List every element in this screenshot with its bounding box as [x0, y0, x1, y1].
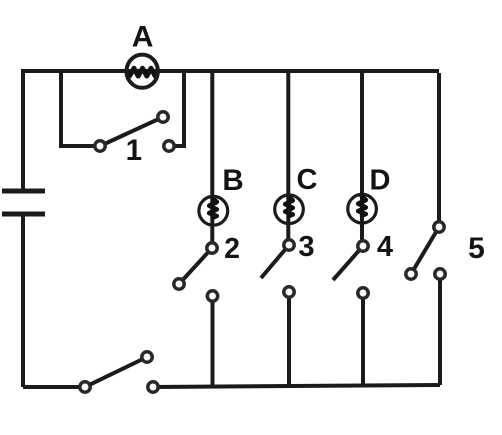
svg-text:C: C	[297, 164, 318, 196]
svg-text:5: 5	[468, 232, 485, 265]
svg-text:3: 3	[298, 231, 314, 263]
svg-text:B: B	[222, 164, 243, 197]
svg-text:D: D	[370, 165, 391, 197]
svg-text:1: 1	[126, 134, 142, 167]
svg-text:A: A	[132, 21, 154, 54]
svg-text:2: 2	[224, 233, 240, 265]
svg-text:4: 4	[377, 231, 393, 263]
